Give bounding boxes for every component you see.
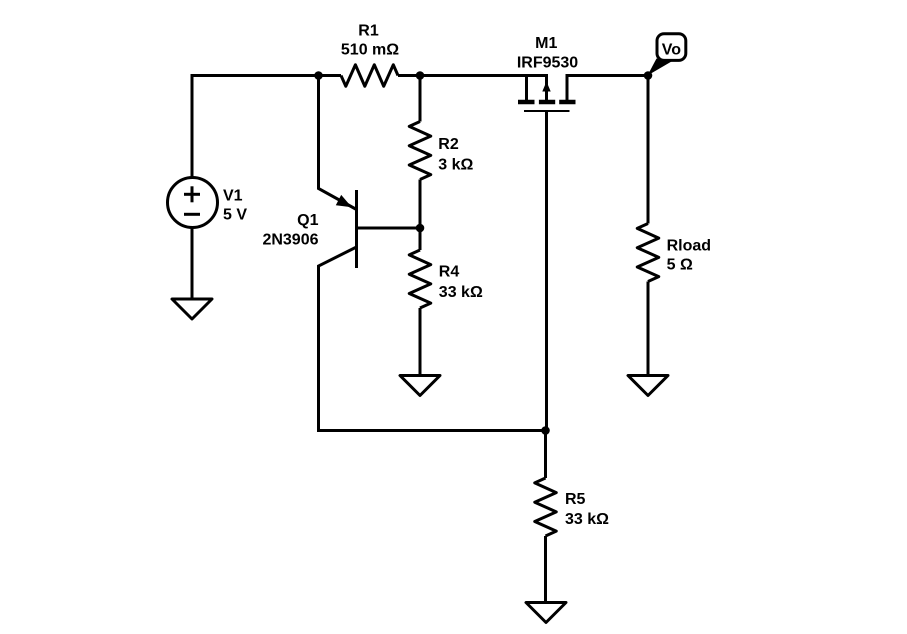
svg-text:R4: R4: [439, 263, 460, 280]
svg-text:2N3906: 2N3906: [262, 231, 318, 248]
svg-text:510 mΩ: 510 mΩ: [341, 42, 399, 59]
svg-text:V1: V1: [223, 188, 243, 205]
svg-text:3 kΩ: 3 kΩ: [438, 156, 473, 173]
svg-text:R5: R5: [565, 491, 586, 508]
svg-text:M1: M1: [535, 35, 557, 52]
svg-text:5 V: 5 V: [223, 207, 247, 224]
svg-text:IRF9530: IRF9530: [517, 54, 578, 71]
svg-text:R2: R2: [438, 136, 459, 153]
svg-text:Vo: Vo: [662, 42, 681, 59]
svg-text:5 Ω: 5 Ω: [667, 257, 693, 274]
svg-text:R1: R1: [358, 23, 379, 40]
svg-text:33 kΩ: 33 kΩ: [439, 284, 483, 301]
svg-text:Q1: Q1: [297, 212, 318, 229]
svg-text:33 kΩ: 33 kΩ: [565, 511, 609, 528]
svg-text:Rload: Rload: [667, 238, 711, 255]
